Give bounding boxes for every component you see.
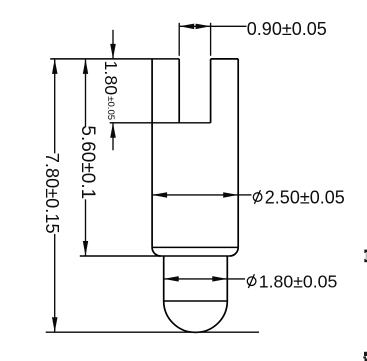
dim 1.80 tip right arrowhead (points right)	[212, 276, 227, 282]
svg-text:2.50±0.05: 2.50±0.05	[265, 187, 345, 207]
tip hemisphere arc	[164, 301, 228, 332]
slot right wall	[210, 59, 212, 123]
dim 0.90 right arrowhead	[196, 24, 211, 30]
dim 1.80 tip dimension line	[164, 278, 228, 280]
svg-text:5.60±0.1: 5.60±0.1	[77, 125, 98, 199]
dim 0.90 left extension line	[178, 23, 180, 56]
dim 5.60 dimension line upper segment	[85, 59, 87, 127]
tip hemisphere tangency line	[164, 300, 228, 302]
dim 0.90 leader to text	[211, 25, 247, 27]
cropped glyph fragment at right edge (middle)	[364, 250, 367, 263]
dim 1.80 tip left arrowhead (points left)	[164, 276, 179, 282]
svg-text:±0.05: ±0.05	[105, 96, 116, 120]
dim 1.80 upper arrowhead (points down)	[110, 44, 116, 59]
dim 2.50 right arrowhead (points right)	[223, 192, 238, 198]
dim 7.80 bottom extension line	[46, 331, 259, 333]
dim 1.80 lower arrow shaft	[112, 123, 114, 151]
dim 7.80 dimension line lower segment	[54, 234, 56, 332]
body top edge right segment	[211, 58, 239, 60]
dim 7.80 dimension line upper segment	[54, 59, 56, 153]
body bottom edge (with left extension line for 5.60 dim)	[80, 255, 230, 257]
body bottom-left fillet	[152, 247, 161, 256]
dim 7.80 bottom arrowhead (points down)	[52, 317, 58, 332]
body bottom-right fillet	[230, 247, 239, 256]
dim 5.60 dimension line lower segment	[85, 199, 87, 256]
svg-text:7.80±0.15: 7.80±0.15	[42, 153, 62, 234]
dim 2.50 dimension line	[152, 194, 238, 196]
dim 0.90 dimension line	[179, 25, 210, 27]
tip right edge	[226, 256, 228, 301]
dim 5.60 bottom arrowhead (points down)	[83, 241, 88, 256]
svg-text:1.80: 1.80	[101, 61, 121, 96]
tip left edge	[163, 256, 165, 301]
cropped glyph fragment at bottom-right corner	[363, 352, 367, 361]
dim 0.90 right extension line	[210, 23, 212, 56]
body right edge	[237, 59, 239, 248]
svg-text:1.80±0.05: 1.80±0.05	[259, 272, 338, 292]
dim 5.60 top arrowhead (points up)	[83, 59, 88, 74]
diameter symbol for 2.50	[253, 190, 262, 204]
diameter symbol for tip 1.80	[247, 274, 256, 288]
dim 0.90 left arrowhead	[179, 24, 194, 30]
dim 7.80 top arrowhead (points up)	[52, 59, 58, 74]
dim 2.50 leader to text	[238, 194, 251, 196]
body top edge left segment (with left extension line for height dims)	[50, 58, 179, 60]
dim 1.80 upper arrow shaft	[112, 30, 114, 59]
svg-text:0.90±0.05: 0.90±0.05	[247, 19, 327, 39]
body left edge	[151, 59, 153, 248]
dim 1.80 tip leader to text	[227, 278, 245, 280]
body fillet tangency line	[152, 246, 238, 248]
slot bottom edge (with left extension line for 1.80 dim)	[110, 122, 211, 124]
slot left wall	[178, 59, 180, 123]
dim 2.50 left arrowhead (points left)	[152, 192, 167, 198]
dim 1.80 lower arrowhead (points up)	[110, 123, 116, 138]
